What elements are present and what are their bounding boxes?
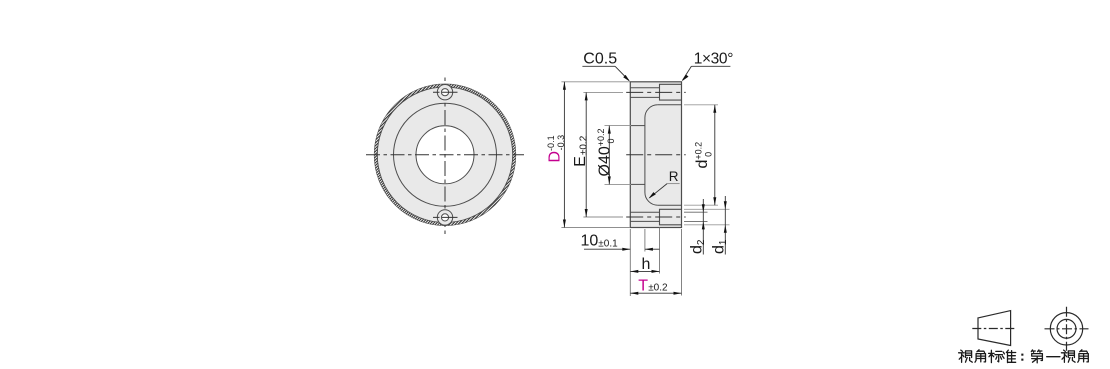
d extension line bottom	[684, 204, 718, 206]
svg-text:1×30°: 1×30°	[694, 51, 734, 68]
C0.5 leader arrow	[623, 75, 630, 82]
E dimension line	[585, 92, 587, 217]
top screw through hole d2 lower line	[630, 96, 659, 98]
1x30 leader underline	[691, 65, 730, 67]
top screw through hole d2 upper line	[630, 87, 659, 89]
symbol circle vertical centerline	[1066, 307, 1068, 351]
d2 arrow top (outside)	[702, 204, 705, 212]
svg-text:d2: d2	[689, 239, 708, 254]
svg-text:10±0.1: 10±0.1	[581, 232, 619, 249]
screw hole top (through d2)	[441, 89, 448, 96]
d arrow bottom	[713, 197, 716, 205]
top screw centerline	[626, 91, 686, 93]
svg-text:Ø40+0.20: Ø40+0.20	[596, 128, 616, 176]
bottom extension line left face	[629, 229, 631, 296]
d1 extension line bottom	[684, 224, 730, 226]
d2 arrow bottom (outside)	[702, 221, 705, 229]
svg-text:±0.2: ±0.2	[648, 283, 668, 294]
screw hole bottom centerline	[433, 216, 458, 218]
bottom extension line right face	[681, 229, 683, 296]
h dimension line	[630, 270, 659, 272]
bottom extension line counterbore face	[659, 228, 661, 274]
T arrow left	[630, 292, 638, 295]
E extension line top	[583, 91, 623, 93]
E arrow bottom	[585, 209, 588, 217]
svg-text:d1: d1	[711, 239, 730, 254]
R leader diagonal	[650, 184, 668, 198]
Ø40 extension line top	[605, 125, 632, 127]
caption glyph jiao	[975, 350, 986, 362]
symbol circle outer	[1050, 313, 1082, 345]
middle circle (bore d)	[394, 103, 497, 206]
svg-text:d+0.20: d+0.20	[693, 142, 713, 169]
screw hole bottom (through d2)	[441, 214, 448, 221]
top counterbore d1 rectangle	[660, 84, 682, 100]
D dimension line	[563, 82, 565, 228]
caption glyph di	[1031, 350, 1042, 363]
bore shoulder with radius R	[645, 105, 658, 205]
D extension line top	[561, 81, 630, 83]
d extension line top	[684, 104, 718, 106]
d dimension line	[714, 105, 716, 205]
bottom screw centerline	[626, 216, 686, 218]
caption glyph jiao	[1078, 350, 1089, 362]
E extension line bottom	[583, 216, 623, 218]
d arrow top	[713, 105, 716, 113]
symbol circle inner	[1057, 319, 1076, 338]
bottom screw through hole d2 lower line	[630, 220, 659, 222]
d1 extension line top	[684, 208, 730, 210]
caption glyph colon	[1021, 354, 1023, 356]
frustum centerline	[972, 328, 1014, 330]
svg-text:E±0.2: E±0.2	[572, 135, 590, 167]
R leader underline	[667, 183, 680, 185]
svg-text:R: R	[669, 169, 679, 184]
caption glyph yi	[1047, 356, 1060, 358]
Ø40 dimension line	[608, 126, 610, 185]
d2 extension line bottom	[684, 220, 708, 222]
Ø40 arrow bottom	[608, 176, 611, 184]
outer circle (OD with knurled edge)	[374, 84, 515, 225]
D extension line bottom	[561, 227, 630, 229]
d1 arrow top (outside)	[724, 201, 727, 209]
1x30 leader diagonal	[683, 66, 692, 80]
svg-text:D-0.1-0.3: D-0.1-0.3	[546, 135, 566, 163]
10 dim right tail	[645, 248, 660, 250]
vertical centerline	[444, 77, 446, 234]
C0.5 leader diagonal	[615, 66, 629, 80]
bore Ø40 wall top	[630, 125, 645, 127]
frustum side view	[978, 311, 1011, 346]
svg-text:C0.5: C0.5	[583, 51, 617, 68]
10 arrow right-pointing at left face	[622, 248, 630, 251]
Ø40 arrow top	[608, 126, 611, 134]
d1 dimension line	[724, 196, 726, 255]
bore d top line	[658, 104, 682, 106]
knurl band inner circle	[377, 87, 512, 222]
R leader arrow	[649, 192, 656, 199]
section horizontal centerline	[626, 154, 686, 156]
screw hole top (counterbore d1)	[437, 85, 452, 100]
caption 视角标准：第一视角 (drawn strokes)	[959, 350, 1089, 363]
svg-text:T: T	[638, 278, 648, 295]
screw hole top centerline	[433, 91, 458, 93]
Ø40 extension line bottom	[605, 183, 632, 185]
d2 dimension line	[702, 199, 704, 255]
svg-text:h: h	[642, 256, 651, 273]
10 arrow left-pointing at bore wall (outside)	[645, 248, 653, 251]
bore Ø40 wall bottom	[630, 183, 645, 185]
section body	[630, 82, 681, 228]
D arrow top	[563, 82, 566, 90]
d2 extension line top	[684, 211, 708, 213]
bottom extension line bore wall	[644, 229, 646, 252]
horizontal centerline	[366, 154, 524, 156]
h arrow left	[630, 270, 638, 273]
screw hole bottom (counterbore d1)	[437, 210, 452, 225]
caption glyph shi	[1061, 350, 1075, 362]
h arrow right	[652, 270, 660, 273]
bore circle (Ø40)	[416, 126, 474, 184]
symbol circle horizontal centerline	[1045, 328, 1089, 330]
caption glyph biao	[989, 350, 1003, 362]
caption glyph zhun	[1003, 350, 1016, 363]
bore d bottom line	[658, 204, 682, 206]
d1 arrow bottom (outside)	[724, 225, 727, 233]
D arrow bottom	[563, 220, 566, 228]
E arrow top	[585, 92, 588, 100]
knurl hatch band	[376, 86, 514, 224]
C0.5 leader underline	[582, 65, 615, 67]
caption glyph shi	[959, 350, 973, 362]
T dimension line	[630, 292, 681, 294]
T arrow right	[674, 292, 682, 295]
bottom counterbore d1 rectangle	[660, 209, 682, 225]
bottom screw through hole d2 upper line	[630, 211, 659, 213]
1x30 leader arrow	[682, 75, 689, 82]
10 dimension line	[584, 248, 630, 250]
